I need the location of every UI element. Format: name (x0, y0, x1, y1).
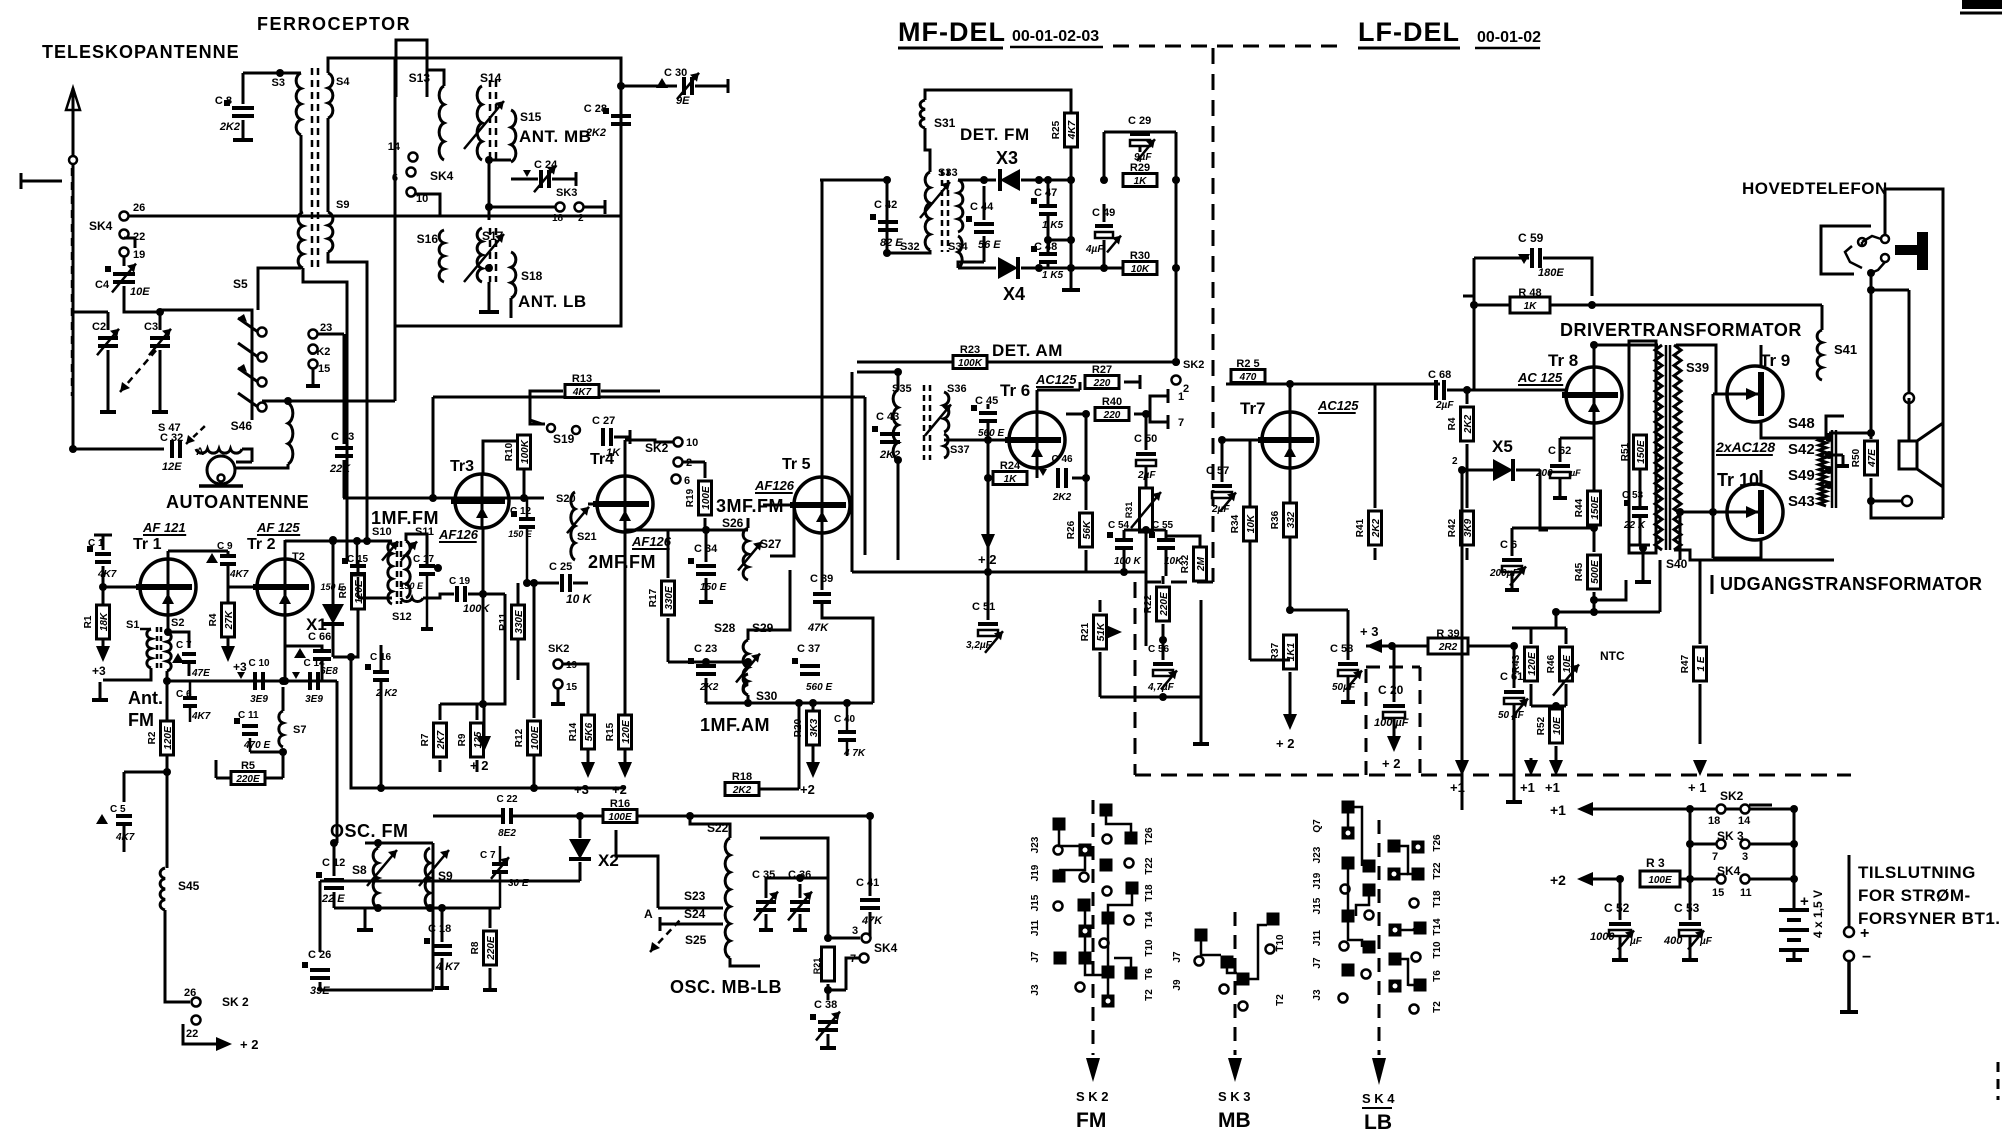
svg-text:SK4: SK4 (430, 169, 454, 183)
resistor R39 (1428, 638, 1468, 654)
svg-text:R29: R29 (1130, 162, 1150, 174)
wire secondary out (1674, 550, 1834, 560)
svg-text:NTC: NTC (1600, 649, 1625, 663)
wire 1MF input (285, 540, 392, 543)
wire R5 ends (265, 777, 283, 780)
wire bottom loop (1871, 501, 1943, 518)
svg-text:FERROCEPTOR: FERROCEPTOR (257, 14, 411, 34)
svg-text:X4: X4 (1003, 284, 1025, 304)
svg-text:Tr 2: Tr 2 (247, 536, 276, 553)
svg-text:56 E: 56 E (978, 239, 1001, 251)
svg-text:J7: J7 (1312, 957, 1323, 969)
svg-text:18: 18 (552, 213, 564, 224)
svg-text:R43: R43 (1511, 654, 1522, 673)
arrow +2 under Tr3 (504, 594, 507, 660)
switch matrix SK4 LB (1342, 801, 1355, 814)
dashed boundary bottom (1135, 774, 1851, 777)
base bus y498 (343, 497, 544, 500)
svg-text:15: 15 (566, 682, 578, 693)
coil S13 (439, 86, 444, 160)
wire lf input (1222, 439, 1262, 442)
svg-text:S15: S15 (520, 110, 542, 124)
resistor R32 (1194, 547, 1207, 581)
wire S35 ends (897, 372, 900, 390)
wire C39 link (822, 614, 873, 703)
dashed boundary jog (1135, 581, 1213, 584)
svg-text:330E: 330E (514, 610, 525, 634)
svg-text:150 E: 150 E (508, 529, 533, 539)
wire box top link (331, 57, 395, 60)
svg-text:30 E: 30 E (508, 878, 529, 889)
svg-text:2µF: 2µF (1435, 400, 1454, 411)
wire C15 stub (356, 541, 359, 565)
speaker (1899, 441, 1917, 469)
svg-text:R4: R4 (208, 613, 219, 626)
wire emitter bus (284, 640, 287, 681)
wire left rail (73, 311, 108, 314)
svg-text:1MF.AM: 1MF.AM (700, 715, 770, 735)
coil S30 (743, 674, 748, 695)
coil S9 (328, 212, 333, 252)
wire C4 down (124, 286, 160, 312)
svg-text:10E: 10E (130, 286, 150, 298)
capacitor C4 trimmer (113, 272, 135, 276)
svg-text:100E: 100E (1648, 875, 1672, 886)
svg-text:T26: T26 (1432, 834, 1443, 852)
wire X5 junction (1540, 470, 1548, 530)
wire C24 (511, 178, 538, 181)
svg-text:R22: R22 (1143, 594, 1154, 613)
wire output frame (1712, 394, 1715, 558)
svg-text:S40: S40 (1666, 557, 1688, 571)
svg-text:4,7µF: 4,7µF (1147, 682, 1175, 693)
svg-text:2K2: 2K2 (699, 682, 719, 693)
svg-text:AF 121: AF 121 (142, 520, 186, 535)
svg-text:2K2: 2K2 (1052, 492, 1072, 503)
wire Tr9 base (1713, 393, 1727, 396)
svg-text:S9: S9 (438, 869, 453, 883)
svg-text:S29: S29 (752, 621, 774, 635)
resistor R41 (1369, 511, 1382, 545)
resistor R46 NTC (1560, 647, 1573, 681)
svg-text:T18: T18 (1432, 890, 1443, 908)
resistor R21b (822, 947, 835, 981)
wire headphone down (1870, 273, 1873, 439)
wire Tr2 collector (284, 540, 287, 559)
driver secondary coil (1674, 345, 1681, 550)
wire R43/R46 top (1530, 628, 1533, 644)
svg-text:+2: +2 (800, 782, 815, 797)
svg-text:J23: J23 (1030, 836, 1041, 853)
svg-text:AF 125: AF 125 (256, 520, 300, 535)
svg-text:LF-DEL: LF-DEL (1358, 17, 1460, 47)
svg-text:14: 14 (388, 141, 401, 153)
arrow +2 under R20 (812, 745, 815, 762)
wire R45 bottom bus (1590, 608, 1598, 616)
svg-text:S49: S49 (1788, 467, 1815, 484)
core LB (489, 228, 492, 282)
svg-text:10 K: 10 K (566, 592, 593, 606)
svg-text:3: 3 (1742, 851, 1748, 863)
svg-text:AC125: AC125 (1035, 372, 1077, 387)
resistor R43 (1525, 647, 1538, 681)
wire R6 bottom to C16 bus (351, 657, 381, 788)
svg-text:47K: 47K (861, 915, 883, 927)
wire +1 rail (1577, 802, 1593, 816)
svg-text:S3: S3 (272, 77, 285, 89)
svg-text:C 5: C 5 (110, 804, 126, 815)
svg-text:SK4: SK4 (89, 219, 113, 233)
corner mark (1962, 0, 2002, 9)
svg-text:220E: 220E (1159, 592, 1170, 617)
core MB (489, 80, 492, 160)
coil S14 variable (477, 86, 482, 160)
wire C15 bottom (357, 577, 360, 598)
svg-text:S8: S8 (352, 863, 367, 877)
wire S13 top loop (427, 70, 444, 86)
svg-text:C 51: C 51 (972, 601, 995, 613)
svg-text:220E: 220E (486, 936, 497, 961)
svg-text:S18: S18 (521, 269, 543, 283)
battery BT1 (1793, 902, 1796, 910)
svg-text:26: 26 (133, 202, 145, 214)
svg-text:AC 125: AC 125 (1517, 370, 1563, 385)
svg-text:R11: R11 (498, 613, 509, 631)
svg-text:R23: R23 (960, 344, 980, 356)
resistor R9 (471, 723, 484, 757)
svg-text:2: 2 (578, 213, 584, 224)
svg-text:C2: C2 (92, 321, 106, 333)
svg-text:150 E: 150 E (700, 582, 726, 593)
wire antenna to C32 (73, 448, 164, 451)
bus through C10/C14 (167, 680, 337, 683)
svg-text:AF126: AF126 (438, 527, 479, 542)
svg-text:C 43: C 43 (876, 411, 899, 423)
resistor R8 (484, 931, 497, 965)
wire R48 to right (1550, 304, 1592, 307)
wire S1 bottom (103, 668, 151, 680)
svg-text:R45: R45 (1574, 562, 1585, 581)
svg-text:50µF: 50µF (1332, 682, 1356, 693)
svg-text:J23: J23 (1312, 846, 1323, 863)
svg-text:2R2: 2R2 (1438, 642, 1458, 653)
svg-text:R14: R14 (568, 722, 579, 741)
contacts 23/SK2/15 below box (309, 330, 318, 339)
svg-text:AF126: AF126 (754, 478, 795, 493)
svg-text:10E: 10E (1562, 655, 1573, 673)
svg-text:T2: T2 (1432, 1001, 1443, 1013)
svg-text:Tr3: Tr3 (450, 458, 474, 475)
resistor R20 (807, 711, 820, 745)
transistor Tr3 (455, 474, 509, 528)
svg-text:1MF.FM: 1MF.FM (371, 508, 439, 528)
wire +2 rail (1577, 872, 1593, 886)
svg-text:4K7: 4K7 (1067, 120, 1078, 140)
svg-text:OSC. FM: OSC. FM (330, 821, 409, 841)
svg-text:T10: T10 (1275, 934, 1286, 952)
wire switch to bus (160, 310, 252, 322)
svg-text:120E: 120E (621, 720, 632, 744)
svg-text:1 K5: 1 K5 (1042, 270, 1064, 281)
dashed box around C20 (1365, 667, 1368, 775)
wire C54/C55 top bus (1124, 529, 1166, 532)
svg-text:DET. FM: DET. FM (960, 125, 1030, 144)
svg-text:50 µF: 50 µF (1498, 710, 1525, 721)
wire driver bottom (1639, 518, 1642, 545)
svg-text:T22: T22 (1432, 862, 1443, 880)
svg-text:S45: S45 (178, 879, 200, 893)
svg-text:J7: J7 (1030, 951, 1041, 963)
svg-text:J7: J7 (1172, 951, 1183, 963)
resistor R22 MF (1157, 587, 1170, 621)
T-bar lead (21, 180, 62, 183)
resistor R52 (1550, 709, 1563, 743)
contact pin 10 (407, 188, 416, 197)
bottom bus det (852, 571, 1146, 574)
wire Tr4 collector (624, 440, 627, 476)
svg-text:C 22: C 22 (496, 794, 518, 805)
telescopic antenna (72, 88, 75, 449)
capacitor C32 (170, 440, 174, 458)
svg-text:2K2: 2K2 (585, 127, 606, 139)
diode X4 (998, 257, 1018, 279)
wire R34 bottom to bus (1250, 659, 1290, 662)
capacitor C5 (124, 771, 167, 774)
svg-text:T2: T2 (1144, 989, 1155, 1001)
resistor R3 (1640, 871, 1680, 887)
wire y401 bus (262, 400, 395, 403)
driver core (1665, 345, 1668, 550)
svg-text:12E: 12E (162, 461, 182, 473)
transistor Tr6 (1009, 412, 1065, 468)
svg-text:560 E: 560 E (806, 682, 832, 693)
svg-text:2K2: 2K2 (732, 785, 752, 796)
svg-text:Tr 5: Tr 5 (782, 456, 811, 473)
wire S9 down to AM mixer (328, 252, 367, 541)
coil S16 (439, 230, 444, 282)
svg-text:2MF.FM: 2MF.FM (588, 552, 656, 572)
svg-text:AC125: AC125 (1317, 398, 1359, 413)
resistor R48 (1510, 297, 1550, 313)
wire right box edge down (620, 216, 623, 326)
svg-text:µF: µF (1699, 936, 1713, 947)
coil S41 (1817, 330, 1822, 380)
svg-text:C 37: C 37 (797, 643, 820, 655)
svg-text:R13: R13 (572, 373, 592, 385)
svg-text:1K: 1K (1004, 474, 1018, 485)
coil S8 variable (373, 848, 378, 908)
box MF strip right (864, 397, 867, 555)
svg-text:C 18: C 18 (428, 923, 451, 935)
svg-text:200µF: 200µF (1489, 568, 1519, 579)
dashed pointer A (186, 425, 206, 444)
svg-text:10: 10 (686, 437, 698, 449)
svg-text:J11: J11 (1312, 929, 1323, 946)
wire S4 to S9 (327, 118, 330, 212)
wire Tr1 emitter to bus (166, 671, 169, 681)
svg-text:120E: 120E (354, 580, 365, 604)
svg-text:R 3: R 3 (1646, 856, 1665, 870)
wire Tr4 emitter (624, 532, 627, 715)
svg-text:C3: C3 (144, 321, 158, 333)
svg-text:100E: 100E (608, 812, 632, 823)
wire bus corner down to OSC (336, 681, 339, 843)
svg-text:3: 3 (852, 925, 858, 937)
svg-text:J3: J3 (1312, 989, 1323, 1001)
svg-text:150E: 150E (1636, 440, 1647, 464)
wire Tr4 base (588, 503, 597, 506)
svg-text:OSC. MB-LB: OSC. MB-LB (670, 977, 782, 997)
svg-text:3,2µF: 3,2µF (966, 640, 993, 651)
svg-text:+3: +3 (233, 660, 247, 674)
svg-text:2: 2 (1452, 456, 1458, 467)
svg-text:µF: µF (1629, 936, 1643, 947)
svg-text:2M: 2M (1196, 556, 1207, 572)
svg-text:X3: X3 (996, 148, 1018, 168)
taps (1825, 434, 1833, 442)
svg-text:100 µF: 100 µF (1374, 717, 1409, 729)
svg-text:1K1: 1K1 (1286, 642, 1297, 661)
wire C30 right (695, 85, 728, 88)
capacitor C21 (168, 632, 189, 648)
resistor R51 (1634, 435, 1647, 469)
wire Tr9 collector to transformer (1760, 345, 1763, 366)
resistor R37 (1284, 635, 1297, 669)
wire headphone left loop (1821, 226, 1871, 274)
svg-text:DET. AM: DET. AM (992, 341, 1063, 360)
wire contact 19 to C4 (123, 256, 126, 266)
svg-text:10K: 10K (1131, 264, 1150, 275)
transformer S35/S36/S37 (893, 390, 898, 460)
svg-text:FOR STRØM-: FOR STRØM- (1858, 886, 1971, 905)
wire osc out right (760, 838, 828, 878)
svg-text:SK2: SK2 (1720, 789, 1744, 803)
switch matrix SK2 FM (1100, 804, 1113, 817)
svg-text:R51: R51 (1620, 442, 1631, 461)
svg-text:1K: 1K (1134, 176, 1148, 187)
capacitor C14 (308, 672, 312, 690)
svg-text:200: 200 (1535, 468, 1553, 479)
svg-text:150 E: 150 E (399, 581, 424, 591)
svg-text:R16: R16 (610, 798, 630, 810)
svg-text:S K 2: S K 2 (1076, 1089, 1109, 1104)
svg-text:S24: S24 (684, 907, 706, 921)
svg-text:C 38: C 38 (814, 999, 837, 1011)
svg-text:LB: LB (1364, 1111, 1392, 1134)
svg-text:2: 2 (1183, 383, 1189, 395)
wire lb links (1347, 813, 1350, 827)
resistor R17 (662, 581, 675, 615)
svg-text:560 E: 560 E (978, 428, 1004, 439)
coil S45 (166, 772, 169, 868)
svg-text:A: A (196, 446, 204, 458)
svg-text:100E: 100E (530, 726, 541, 750)
svg-text:3K9: 3K9 (1463, 518, 1474, 537)
svg-text:C 68: C 68 (1428, 369, 1451, 381)
resistor R24 (993, 472, 1027, 485)
wire S11 top to C17 (406, 534, 427, 566)
transformer S1/S2 (147, 629, 151, 668)
autoantenne symbol (207, 456, 235, 484)
svg-text:+2: +2 (1550, 872, 1566, 888)
svg-text:150E: 150E (1590, 496, 1601, 520)
svg-text:Ant.: Ant. (128, 688, 163, 708)
svg-text:+ 2: + 2 (470, 758, 488, 773)
wire S5 bottom (258, 268, 301, 310)
coil S5 (298, 212, 303, 268)
wire C19 to Tr3 emitter (468, 593, 483, 596)
svg-text:14: 14 (1738, 815, 1751, 827)
svg-text:150 E: 150 E (320, 582, 345, 592)
svg-text:C 20: C 20 (1378, 683, 1404, 697)
svg-text:J19: J19 (1312, 872, 1323, 889)
svg-text:180E: 180E (1538, 267, 1564, 279)
svg-text:C 58: C 58 (1330, 643, 1353, 655)
svg-text:100E: 100E (701, 486, 712, 510)
wire osc bottom bus (334, 907, 500, 910)
transistor Tr4 (597, 476, 653, 532)
svg-text:S43: S43 (1788, 493, 1815, 510)
wire C17 down gnd (426, 574, 429, 627)
coil S46 (288, 403, 293, 464)
svg-text:T10: T10 (1144, 939, 1155, 957)
mb dashed arrow (1234, 912, 1237, 1055)
svg-text:15: 15 (318, 363, 330, 375)
resistor R6 (352, 575, 365, 609)
svg-text:+ 2: + 2 (1276, 736, 1294, 751)
svg-text:6: 6 (684, 475, 690, 487)
svg-text:MF-DEL: MF-DEL (898, 17, 1006, 47)
svg-text:R5: R5 (241, 760, 255, 772)
coil S4 (328, 73, 333, 118)
svg-text:R27: R27 (1092, 364, 1112, 376)
svg-text:ANT. MB: ANT. MB (519, 127, 591, 146)
svg-text:1 K5: 1 K5 (1042, 220, 1064, 231)
terminal + - (1848, 855, 1851, 926)
svg-text:AUTOANTENNE: AUTOANTENNE (166, 492, 309, 512)
wire contact 26 line (128, 215, 620, 218)
svg-text:3E9: 3E9 (305, 694, 323, 705)
resistor R29 (1123, 174, 1157, 187)
svg-text:J19: J19 (1030, 864, 1041, 881)
resistor R50 (1865, 441, 1878, 475)
svg-text:S23: S23 (684, 889, 706, 903)
svg-text:+2: +2 (612, 782, 627, 797)
svg-text:S35: S35 (892, 383, 912, 395)
coil S12 small (401, 598, 423, 601)
wire R43/R46 bottom (1530, 684, 1533, 706)
svg-text:T26: T26 (1144, 827, 1155, 845)
svg-text:R40: R40 (1102, 396, 1122, 408)
wire C8 top (243, 72, 301, 75)
svg-text:R8: R8 (470, 941, 481, 954)
svg-text:S42: S42 (1788, 441, 1815, 458)
top audio bus (1592, 304, 1822, 307)
svg-text:22K: 22K (329, 463, 351, 475)
capacitor C22 (501, 808, 505, 824)
dashed boundary vertical (1212, 48, 1215, 582)
svg-text:R30: R30 (1130, 250, 1150, 262)
svg-text:1K: 1K (1524, 301, 1538, 312)
svg-text:R24: R24 (1000, 460, 1021, 472)
svg-text:C 23: C 23 (694, 643, 717, 655)
wire Tr3 emitter down (482, 528, 485, 594)
svg-text:2K7: 2K7 (436, 730, 447, 750)
svg-text:S11: S11 (415, 526, 434, 538)
wire top bus y86 (621, 85, 677, 88)
resistor R43b (1461, 407, 1474, 441)
svg-text:S2: S2 (171, 617, 184, 629)
